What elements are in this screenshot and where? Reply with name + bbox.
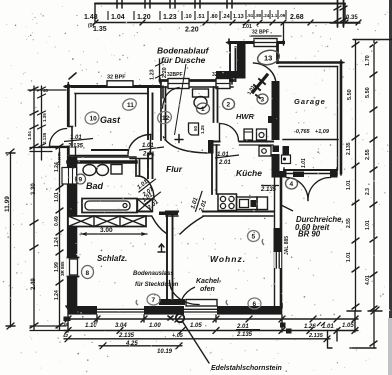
node 1	[197, 103, 210, 114]
wall left black bar	[67, 157, 77, 307]
svg-text:BR 90: BR 90	[298, 230, 321, 239]
svg-text:32 BPF: 32 BPF	[252, 30, 269, 36]
wall gast bottom upper	[92, 150, 152, 154]
svg-text:Edelstahlschornstein: Edelstahlschornstein	[211, 365, 282, 372]
vertical stubs	[68, 311, 355, 341]
porch wall horizontal bar	[216, 71, 246, 79]
basin bad 1	[83, 165, 96, 176]
tick pair A4	[195, 0, 200, 8]
wall gast right	[148, 87, 153, 178]
kachelofen arc	[170, 281, 200, 305]
svg-text:.80: .80	[210, 14, 218, 20]
garage double door arc right	[308, 177, 331, 200]
garage door threshold dark	[293, 172, 304, 178]
right hline y23 extension	[330, 22, 360, 24]
kachelofen leader	[182, 287, 195, 299]
wall bad top thin	[68, 156, 136, 158]
svg-text:Gast: Gast	[100, 115, 121, 125]
top connector ticks	[30, 148, 68, 152]
node 6	[248, 298, 261, 309]
garage right wall	[340, 63, 343, 174]
svg-text:2.55: 2.55	[346, 218, 352, 228]
svg-text:60: 60	[193, 125, 198, 131]
svg-text:1.13: 1.13	[233, 14, 244, 20]
divider wall schlafz-wohnz	[167, 215, 173, 299]
svg-text:2.135: 2.135	[308, 333, 324, 339]
svg-text:5.50: 5.50	[365, 87, 371, 98]
svg-text:11.99: 11.99	[4, 196, 11, 212]
svg-text:2.135: 2.135	[346, 142, 352, 155]
shower floor drain mark	[175, 135, 183, 143]
svg-text:2.55: 2.55	[365, 149, 371, 160]
svg-text:40: 40	[43, 88, 49, 93]
svg-text:11: 11	[127, 102, 134, 109]
wall bottom black	[67, 306, 282, 315]
svg-text:1.01: 1.01	[346, 252, 352, 262]
svg-text:3.30: 3.30	[31, 183, 37, 195]
svg-text:2.135: 2.135	[236, 332, 253, 338]
svg-text:1.35: 1.35	[93, 26, 107, 33]
garage interior step line	[283, 139, 338, 141]
svg-text:2.20: 2.20	[185, 27, 199, 34]
svg-text:1.23: 1.23	[163, 14, 177, 21]
svg-text:1.00: 1.00	[149, 323, 161, 329]
stove kueche	[218, 194, 237, 211]
wall kueche left	[212, 145, 217, 194]
scan edge right dark	[389, 0, 392, 318]
hatch band bad-schlafz	[68, 216, 146, 227]
svg-text:2.3: 2.3	[365, 188, 371, 195]
window schlafz left	[67, 257, 78, 277]
svg-text:1.01: 1.01	[346, 180, 352, 190]
right bottom end ticks	[347, 310, 361, 312]
svg-text:1.25: 1.25	[200, 125, 205, 134]
svg-text:36: 36	[63, 322, 69, 327]
dim 3.00 arrow	[81, 233, 147, 235]
garage separator black bar	[272, 81, 280, 140]
svg-text:.24: .24	[263, 13, 270, 18]
svg-text:ofen: ofen	[200, 286, 215, 293]
svg-text:für Dusche: für Dusche	[161, 55, 206, 65]
divider bottom cap	[159, 299, 185, 305]
bathtub inner	[85, 201, 130, 210]
svg-text:HWR: HWR	[236, 112, 254, 121]
svg-text:2.49: 2.49	[31, 278, 37, 290]
kachelofen base box	[186, 300, 217, 307]
svg-text:.51: .51	[197, 14, 205, 20]
window terrace top	[254, 39, 277, 47]
svg-text:1.05: 1.05	[342, 323, 354, 329]
extension line gast bottom	[42, 146, 66, 148]
bodenauslass symbol	[158, 244, 165, 252]
sill terrace window	[250, 35, 281, 37]
svg-text:Garage: Garage	[294, 97, 326, 106]
wall-section marks	[280, 323, 286, 328]
right dim line D	[373, 40, 375, 349]
garage top wall	[278, 61, 342, 64]
svg-text:Küche: Küche	[236, 168, 262, 178]
bottom dim line 1	[64, 318, 358, 320]
svg-text:1.04: 1.04	[27, 131, 32, 140]
label door bad rotated	[135, 174, 162, 199]
svg-text:JAL 885: JAL 885	[284, 236, 290, 255]
svg-text:1.23: 1.23	[150, 69, 156, 80]
svg-text:.51: .51	[247, 13, 254, 18]
shower basin small	[188, 123, 198, 135]
svg-text:+.05: +.05	[172, 333, 184, 339]
label door wohnz rotated	[190, 189, 211, 215]
node 7	[147, 294, 160, 305]
svg-text:5.50: 5.50	[347, 89, 353, 100]
entrance door arc	[254, 63, 277, 85]
svg-text:10.19: 10.19	[157, 349, 173, 355]
wall hwr-kueche	[213, 140, 273, 142]
svg-text:Schlafz.: Schlafz.	[97, 254, 127, 263]
double vertical x337/x343 with cross ticks	[338, 0, 344, 27]
vertical dim 1.23/2.20	[159, 59, 161, 80]
tick pair A3	[170, 0, 175, 8]
svg-text:3R 885: 3R 885	[60, 261, 65, 276]
chimney leader	[183, 322, 210, 364]
node 12	[156, 109, 173, 125]
wall garage separator upper	[276, 44, 279, 63]
vertical stub x345	[344, 4, 346, 24]
svg-text:Bad: Bad	[86, 181, 104, 191]
washer hwr	[244, 129, 253, 140]
node 5	[248, 231, 260, 242]
wall shower top inner	[160, 86, 233, 88]
svg-text:1.1: 1.1	[271, 13, 278, 18]
label kueche east	[261, 185, 279, 187]
garage side sink box	[282, 155, 291, 164]
svg-text:2.20: 2.20	[162, 67, 168, 78]
svg-text:1.10: 1.10	[85, 323, 97, 329]
basin bad 2	[97, 165, 109, 176]
svg-text:1.20: 1.20	[137, 14, 151, 21]
terrace door wohnz bottom	[184, 306, 217, 315]
porch wall vertical bar	[237, 44, 246, 72]
counter end kueche	[257, 197, 268, 210]
svg-text:-0,765: -0,765	[294, 129, 311, 135]
right top connector	[353, 39, 392, 41]
wall wohnz east outer	[280, 178, 283, 306]
svg-text:1.01: 1.01	[301, 158, 307, 168]
left top connector	[28, 89, 66, 91]
entrance door leaf	[253, 75, 267, 92]
wall left door post jog	[68, 127, 72, 148]
svg-text:4.01: 4.01	[365, 275, 371, 285]
corner overshoots hand-drawn	[64, 39, 344, 310]
svg-text:Kachel-: Kachel-	[196, 278, 222, 285]
svg-text:.10: .10	[184, 14, 192, 20]
svg-text:32BPF: 32BPF	[167, 72, 183, 78]
svg-text:1.24: 1.24	[54, 237, 60, 247]
wall bad right	[136, 160, 140, 176]
wohnz east black segment	[274, 228, 283, 252]
window schlafz bottom	[97, 306, 144, 315]
node 2	[223, 99, 235, 110]
svg-text:1.35: 1.35	[42, 113, 47, 122]
vertical stub left x95	[94, 4, 96, 24]
node 10	[83, 110, 100, 126]
tick pair A5	[227, 0, 232, 8]
svg-text:1.01: 1.01	[322, 324, 334, 330]
label door schlafz rotated	[140, 187, 167, 212]
svg-text:1.01: 1.01	[242, 24, 252, 30]
svg-text:12: 12	[162, 115, 170, 122]
svg-text:4: 4	[290, 181, 294, 188]
back wall east thick	[272, 171, 287, 178]
svg-text:3.04: 3.04	[115, 323, 127, 329]
svg-text:1: 1	[201, 106, 205, 113]
node 9	[76, 174, 86, 184]
durchreiche leader	[281, 205, 293, 211]
wall shower left	[161, 81, 166, 140]
node 8	[82, 266, 94, 279]
door arc shower big	[164, 137, 208, 153]
svg-text:1.01: 1.01	[365, 220, 371, 230]
tick pair A2	[145, 0, 150, 8]
line2 ticks	[65, 328, 358, 334]
svg-text:1.70: 1.70	[365, 55, 371, 66]
garage door bottom	[284, 169, 337, 171]
svg-text:2: 2	[227, 102, 231, 109]
door arc gast	[128, 135, 151, 155]
vline right block	[328, 331, 333, 349]
window gast top protruding sill	[107, 81, 133, 87]
kitchen east window gap	[273, 146, 280, 153]
svg-text:Flur: Flur	[166, 164, 183, 174]
wall terrace top	[229, 41, 284, 44]
svg-text:Wohnz.: Wohnz.	[210, 254, 246, 264]
window shower 2	[216, 79, 230, 89]
node 4	[286, 178, 298, 189]
bodenablauf leader	[175, 64, 187, 135]
wall flur south (kueche bottom)	[137, 210, 273, 212]
svg-text:1.26: 1.26	[304, 324, 316, 330]
left dim line 2b short	[41, 86, 43, 160]
svg-text:5: 5	[252, 234, 256, 241]
door arc bad	[138, 176, 155, 200]
divider top cap	[159, 212, 178, 216]
garage door right stub	[330, 171, 338, 178]
node 11	[121, 97, 138, 112]
wall terrace-mid vertical	[230, 42, 236, 81]
left dim line 1	[10, 152, 12, 327]
exterior door gast arc	[49, 129, 66, 147]
vertical stub x283.5	[283, 23, 285, 42]
svg-text:.24: .24	[222, 14, 231, 20]
svg-text:4.25: 4.25	[125, 341, 138, 347]
door arc hwr	[220, 124, 239, 142]
svg-text:0.35: 0.35	[346, 15, 358, 21]
svg-text:3.00: 3.00	[100, 227, 113, 234]
bathtub outer	[82, 199, 137, 213]
scan edge right gray	[388, 318, 392, 375]
wall shower-hwr	[214, 87, 218, 122]
svg-text:.80: .80	[255, 13, 262, 18]
svg-text:7: 7	[152, 297, 156, 304]
shower door post	[208, 140, 214, 154]
top dimension line A	[95, 3, 345, 5]
wall gast top outer	[66, 85, 160, 88]
top dimension line B	[95, 22, 358, 24]
right dim line C	[355, 40, 357, 312]
svg-text:1.05: 1.05	[190, 323, 202, 329]
svg-text:0.49: 0.49	[54, 216, 60, 226]
svg-text:2.135: 2.135	[118, 333, 135, 339]
svg-text:1.24: 1.24	[54, 290, 60, 300]
cabinet bad	[111, 165, 122, 175]
wc bowl	[194, 97, 207, 109]
bottom dim line 4	[99, 345, 182, 347]
svg-text:Bodenauslass: Bodenauslass	[133, 271, 174, 277]
wall left inner	[75, 94, 77, 158]
wall bad top thick counter	[68, 160, 136, 164]
svg-text:2.135: 2.135	[260, 187, 277, 193]
wall gast bottom lower	[68, 156, 151, 159]
svg-text:9: 9	[79, 177, 83, 184]
svg-text:2.135: 2.135	[42, 132, 47, 144]
line1 ticks	[65, 316, 358, 322]
svg-text:2.01: 2.01	[218, 160, 231, 166]
bottom dim line 3	[64, 338, 330, 340]
bottom dim line 2	[64, 330, 358, 332]
dryer hwr	[257, 129, 267, 140]
garage pillar	[283, 146, 290, 155]
svg-text:Bodenablauf: Bodenablauf	[157, 46, 210, 56]
node 3	[257, 94, 268, 104]
svg-text:6: 6	[253, 301, 257, 308]
wall left outer	[67, 86, 70, 309]
svg-text:10: 10	[90, 116, 98, 123]
chimney circle	[176, 314, 184, 322]
garage separator lower black	[272, 154, 280, 171]
counter sink kueche	[237, 197, 258, 210]
svg-text:für Steckdosen: für Steckdosen	[135, 282, 179, 288]
bottom connector ticks	[30, 326, 66, 331]
window wohnz east	[274, 252, 281, 268]
sink kueche right	[259, 146, 271, 156]
garage double door arc left	[287, 178, 309, 201]
svg-text:.09: .09	[279, 13, 286, 18]
window shower 1	[168, 79, 189, 89]
svg-text:1.01: 1.01	[54, 192, 60, 202]
shower tray bad	[138, 199, 153, 212]
wall gast top inner	[75, 93, 148, 95]
wall wohnz east inner	[274, 178, 276, 306]
svg-text:8: 8	[86, 270, 90, 277]
node 13	[256, 48, 280, 66]
svg-text:1.48: 1.48	[84, 14, 98, 21]
left dim line 3	[59, 146, 61, 330]
line B ticks	[93, 20, 361, 25]
tiny cluster with separators	[246, 10, 286, 19]
hwr wall cabinet dark	[268, 116, 274, 123]
door arc wohnz	[180, 217, 203, 235]
svg-text:3: 3	[261, 97, 265, 104]
window bad left protruding	[62, 168, 77, 185]
tick pair A1	[117, 0, 122, 8]
bathtub drain	[123, 204, 127, 208]
left dim line 2	[33, 86, 35, 330]
wall shower top outer	[160, 79, 233, 82]
svg-text:Therm: Therm	[57, 152, 62, 166]
svg-text:42: 42	[62, 333, 69, 338]
door arc schlafz	[152, 217, 167, 234]
door arc shower upper left	[163, 88, 180, 109]
wc cistern	[193, 89, 209, 97]
svg-text:1.04: 1.04	[111, 14, 125, 21]
svg-text:13: 13	[264, 54, 272, 63]
svg-text:2.135: 2.135	[67, 144, 84, 150]
svg-text:+1,09: +1,09	[315, 129, 330, 135]
